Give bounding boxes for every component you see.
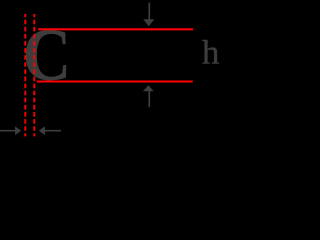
svg-text:C: C: [23, 14, 72, 97]
svg-text:h: h: [202, 34, 220, 71]
